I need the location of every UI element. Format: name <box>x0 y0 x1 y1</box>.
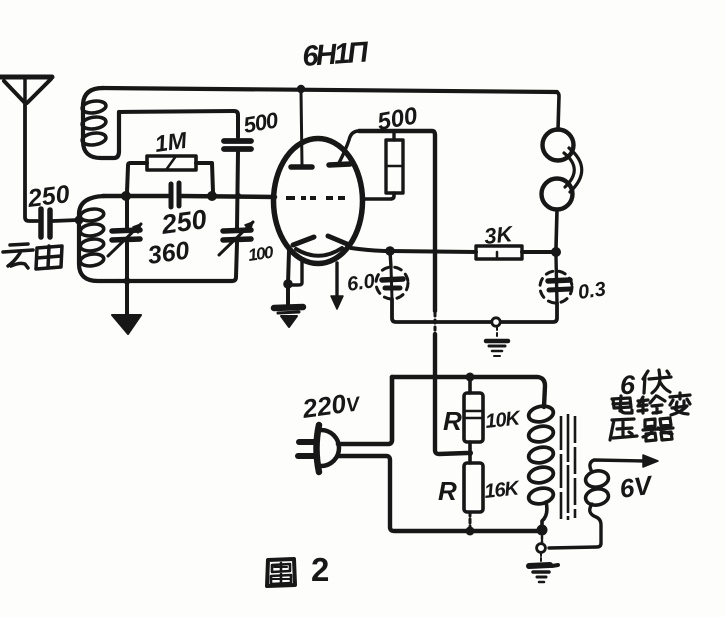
node anode drop junction <box>297 85 305 93</box>
variable capacitor 360 <box>108 199 141 315</box>
pilot lamp 6.0 <box>376 251 408 299</box>
transformer secondary <box>584 469 609 507</box>
variable capacitor 100 <box>219 222 253 281</box>
plug 220V <box>298 425 339 472</box>
node divider bottom junction <box>466 527 475 536</box>
transformer core <box>561 414 575 520</box>
tube cathode bars <box>293 237 314 245</box>
resistor R 10K <box>464 377 483 463</box>
ground (cathode) <box>274 307 303 327</box>
wire secondary top to arrow <box>590 460 645 472</box>
wire grid line from L2 <box>103 194 168 199</box>
tube right anode plate and lead <box>329 164 350 165</box>
svg-text:6Н1П: 6Н1П <box>301 36 370 73</box>
svg-text:100: 100 <box>247 243 275 265</box>
wire heater arrow <box>335 263 338 297</box>
伏 <box>643 370 671 393</box>
node transformer bottom junction <box>537 525 548 536</box>
svg-text:R: R <box>443 406 462 436</box>
wire heater bus <box>501 303 557 322</box>
wire dot to terminal <box>541 536 544 543</box>
svg-text:250: 250 <box>25 180 71 213</box>
ground (tank, solid triangle) <box>112 315 141 334</box>
capacitor 250 (antenna coupling) <box>41 209 50 237</box>
inductor L2 tuning coil <box>79 196 118 281</box>
node secondary terminal <box>537 544 546 553</box>
headphones <box>542 92 582 248</box>
变 <box>670 393 690 415</box>
capacitor 500 (feedback, top) <box>224 141 251 149</box>
wire plug bottom to bottom rail <box>338 456 540 531</box>
wire tickler feedback line <box>119 111 238 137</box>
wire cathode output line <box>351 248 476 252</box>
resistor R 16K <box>464 463 483 531</box>
压 <box>610 419 637 440</box>
svg-text:360: 360 <box>146 236 191 270</box>
svg-text:500: 500 <box>242 107 281 138</box>
resistor 3K <box>476 246 522 259</box>
svg-text:R: R <box>438 476 457 506</box>
node ground junction <box>124 278 131 285</box>
svg-text:1M: 1M <box>153 127 189 157</box>
node 1M right junction <box>207 191 217 201</box>
power: top rail 220V <box>392 377 545 407</box>
svg-text:3K: 3K <box>483 221 516 249</box>
node phones junction <box>551 247 561 257</box>
node divider top junction <box>466 373 475 382</box>
svg-text:220V: 220V <box>300 386 363 424</box>
svg-text:6.0: 6.0 <box>346 270 377 296</box>
ground (transformer) <box>529 553 558 582</box>
svg-text:16K: 16K <box>483 477 521 503</box>
label 圖 2 <box>267 559 295 586</box>
wire cathode to ground <box>288 251 289 305</box>
wire cap to coil <box>53 220 78 221</box>
wire antenna lead <box>25 103 37 221</box>
inductor L1 tickler coil <box>81 88 119 158</box>
ground (heater) <box>486 327 508 356</box>
resistor 1M grid leak <box>127 156 213 192</box>
wire anode to B+ dropper <box>359 131 435 311</box>
node cross junction <box>235 193 241 199</box>
node 1M left junction <box>121 191 131 201</box>
node antenna tap junction <box>75 216 84 225</box>
svg-text:250: 250 <box>159 204 209 240</box>
tube 6N1P envelope <box>274 139 363 264</box>
wire C500 down through grid line to C100 <box>237 152 238 228</box>
node cathode junction <box>283 279 293 289</box>
铃 <box>638 396 665 413</box>
svg-text:6V: 6V <box>618 469 656 504</box>
svg-text:10K: 10K <box>484 407 522 433</box>
器 <box>643 418 673 441</box>
capacitor 250 (grid series) <box>171 183 179 207</box>
node lamp junction left <box>385 246 395 256</box>
wire left drop to plug <box>338 377 392 444</box>
resistor 500 (anode load) <box>362 131 403 199</box>
transformer primary <box>527 404 555 506</box>
wire bottom left rail <box>118 279 232 283</box>
tube heater arc <box>296 248 342 256</box>
label 6伏电铃变压器 <box>610 370 690 441</box>
label 云母 (mica) <box>3 244 62 269</box>
tube grid dashes <box>286 196 345 200</box>
pilot lamp 0.3 <box>540 257 572 303</box>
wire 3K to phones junction <box>522 250 552 254</box>
svg-text:2: 2 <box>311 551 329 588</box>
node heater terminal <box>492 318 500 326</box>
wire secondary bottom lead <box>549 504 601 548</box>
tube left anode plate and lead <box>291 164 312 170</box>
wire primary bottom lead <box>542 502 547 526</box>
电 <box>612 396 632 413</box>
antenna <box>0 77 52 103</box>
svg-text:0.3: 0.3 <box>577 278 608 304</box>
wire top rail B+ <box>102 88 557 92</box>
